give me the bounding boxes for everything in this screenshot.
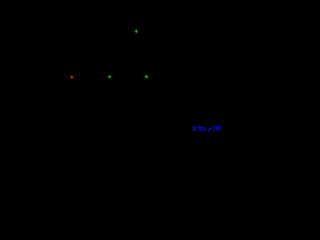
svg-text:X: X <box>192 126 197 133</box>
svg-text:fmu: fmu <box>198 126 206 133</box>
svg-text:7W: 7W <box>213 125 221 133</box>
